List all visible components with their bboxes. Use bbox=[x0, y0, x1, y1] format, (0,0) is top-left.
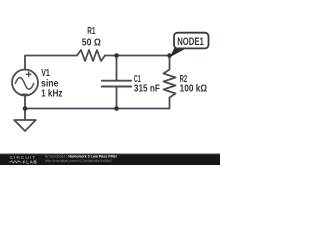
node junction dot bottom (C1/bottom rail) bbox=[114, 106, 119, 111]
wire bottom rail with R2 bend bbox=[25, 98, 170, 109]
svg-text:http://circuitlab.com/c/12qh8s: http://circuitlab.com/c/12qh8s6/abb1e88c… bbox=[45, 159, 112, 163]
V1 minus sign bbox=[22, 93, 26, 95]
svg-text:V1: V1 bbox=[41, 68, 50, 79]
svg-text:100 kΩ: 100 kΩ bbox=[180, 84, 207, 95]
svg-text:NODE1: NODE1 bbox=[177, 36, 204, 48]
wire capacitor bottom stub bbox=[116, 87, 118, 109]
svg-text:1 kHz: 1 kHz bbox=[41, 89, 62, 100]
capacitor C1 bbox=[102, 81, 131, 87]
wire ground stub bbox=[24, 109, 26, 121]
wire V1 bottom stub bbox=[24, 96, 26, 109]
wire top-left vertical from V1 to top rail, bend to R1 bbox=[25, 56, 77, 70]
CircuitLab logo bolt bbox=[23, 160, 26, 165]
node junction dot NODE1 bbox=[167, 53, 172, 58]
svg-text:315 nF: 315 nF bbox=[134, 84, 160, 95]
NODE1 flag box bbox=[174, 33, 209, 49]
voltage source V1 bbox=[12, 70, 38, 96]
footer bar bbox=[0, 154, 220, 166]
V1 plus sign bbox=[26, 72, 31, 77]
resistor R1 bbox=[77, 50, 105, 61]
wire capacitor top stub bbox=[116, 56, 118, 81]
node junction dot top (C1/top rail) bbox=[114, 53, 119, 58]
V1 sine glyph bbox=[15, 78, 33, 90]
svg-text:LAB: LAB bbox=[26, 160, 37, 165]
wire top rail right segment to R2 bend bbox=[105, 56, 170, 70]
NODE1 flag tail bbox=[170, 47, 186, 57]
ground symbol bbox=[14, 120, 36, 131]
resistor R2 bbox=[164, 70, 176, 98]
svg-text:R1: R1 bbox=[87, 26, 95, 37]
CircuitLab logo resistor zigzag bbox=[9, 161, 22, 163]
node junction dot ground bbox=[23, 106, 28, 111]
svg-text:50 Ω: 50 Ω bbox=[82, 38, 101, 49]
